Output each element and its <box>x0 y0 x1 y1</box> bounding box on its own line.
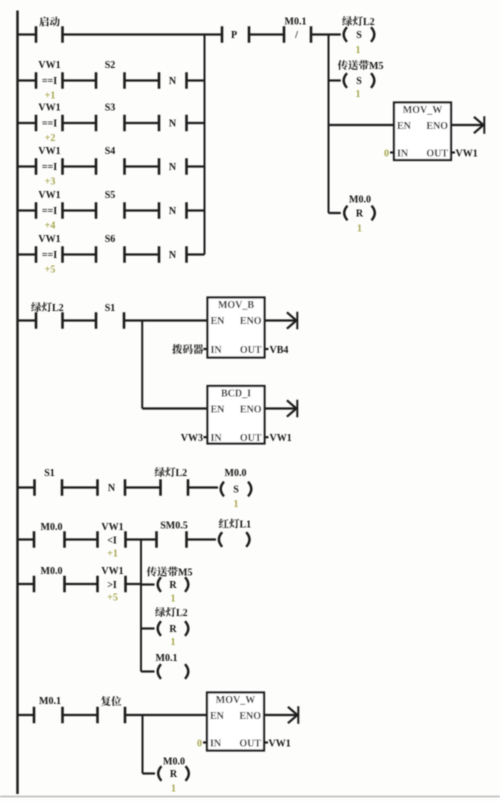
svg-text:IN: IN <box>211 345 223 356</box>
svg-text:OUT: OUT <box>426 149 448 160</box>
operand +3 <box>45 177 56 188</box>
svg-text:VW1: VW1 <box>38 60 60 71</box>
coil M0.0 set network3 <box>221 468 252 496</box>
svg-text:N: N <box>108 483 116 494</box>
operand 1 under reset coil <box>357 224 362 235</box>
wire branch bus network4 <box>140 540 142 672</box>
contact VW1 ==I compare +3 <box>36 146 63 175</box>
operand +4 <box>45 221 56 232</box>
svg-text:N: N <box>169 206 177 217</box>
svg-text:R: R <box>356 209 364 220</box>
svg-text:VW1: VW1 <box>456 148 478 159</box>
wire stub to M0.0 reset coil <box>329 212 341 214</box>
svg-text:EN: EN <box>397 121 412 132</box>
contact S6 <box>96 234 125 263</box>
contact N negative edge S3 rung <box>159 115 187 132</box>
svg-text:IN: IN <box>397 149 409 160</box>
svg-text:+5: +5 <box>45 265 56 276</box>
svg-text:N: N <box>169 119 177 130</box>
coil M0.1 output <box>156 653 189 679</box>
svg-text:S: S <box>356 30 362 41</box>
svg-text:<I: <I <box>107 535 117 546</box>
svg-text:+4: +4 <box>45 221 56 232</box>
svg-text:L2: L2 <box>363 17 375 28</box>
svg-text:VW1: VW1 <box>38 234 60 245</box>
operand 1 under conveyor coil <box>356 89 361 100</box>
svg-text:N: N <box>169 162 177 173</box>
wire network4 rungB <box>18 583 142 585</box>
svg-text:==I: ==I <box>42 119 57 130</box>
svg-text:MOV_W: MOV_W <box>403 105 442 116</box>
wire stub M0.1 coil <box>141 670 155 672</box>
wire ENO output MOV_B <box>265 319 296 321</box>
wire compare rung S3 <box>18 122 205 124</box>
operand 0 at IN network5 <box>197 738 202 749</box>
svg-text:==I: ==I <box>42 162 57 173</box>
svg-text:VW1: VW1 <box>38 103 60 114</box>
operand +5 <box>45 265 56 276</box>
operand 1 under set coil <box>356 45 361 56</box>
svg-text:L1: L1 <box>240 520 252 531</box>
svg-text:+1: +1 <box>45 91 56 102</box>
svg-text:L2: L2 <box>176 468 188 479</box>
svg-text:M0.0: M0.0 <box>349 195 371 206</box>
svg-text:OUT: OUT <box>240 345 262 356</box>
svg-text:M0.1: M0.1 <box>285 17 307 28</box>
contact SM0.5 <box>157 521 188 548</box>
operand VB4 at OUT <box>270 345 289 356</box>
continuation arrow network1 <box>474 116 484 134</box>
contact VW1 ==I compare +4 <box>36 190 63 219</box>
svg-text:VW1: VW1 <box>269 738 291 749</box>
contact P positive edge <box>222 26 249 43</box>
contact M0.1 normally closed <box>284 17 311 43</box>
svg-text:S1: S1 <box>44 468 55 479</box>
svg-text:ENO: ENO <box>239 711 261 722</box>
svg-text:S5: S5 <box>105 190 116 201</box>
function box MOV_W network1 <box>390 103 455 161</box>
wire compare rung S4 <box>18 165 205 167</box>
wire stub M0.0 reset network5 <box>143 772 156 774</box>
operand 0 at IN <box>384 148 389 159</box>
svg-text:VW1: VW1 <box>38 146 60 157</box>
svg-text:M5: M5 <box>178 568 192 579</box>
operand 1 greenlamp reset <box>171 637 176 648</box>
wire ENO output BCD_I <box>265 407 296 409</box>
svg-text:+1: +1 <box>107 549 118 560</box>
contact N network3 <box>98 479 126 496</box>
svg-text:SM0.5: SM0.5 <box>160 521 188 532</box>
wire network3 rung <box>18 486 219 488</box>
contact N negative edge S2 rung <box>159 72 187 89</box>
svg-text:L2: L2 <box>52 303 64 314</box>
operand 1 network3 <box>234 499 239 510</box>
function box MOV_B <box>204 298 269 358</box>
coil M0.0 reset R <box>344 195 375 221</box>
coil 红灯L1 network4 <box>219 519 251 547</box>
svg-text:M0.0: M0.0 <box>41 566 63 577</box>
svg-text:ENO: ENO <box>240 405 262 416</box>
contact S1 network2 <box>96 303 124 329</box>
continuation arrow MOV_B <box>287 312 297 330</box>
svg-text:S1: S1 <box>105 303 116 314</box>
wire compare rung S5 <box>18 209 205 211</box>
wire network2 rung <box>18 319 208 321</box>
contact VW1 greater-than <box>98 566 126 592</box>
wire stub greenlamp reset <box>141 627 155 629</box>
wire branch to BCD_I <box>142 321 207 409</box>
operand 拨码器 at IN <box>172 344 203 354</box>
svg-text:1: 1 <box>171 784 176 795</box>
wire compare rung S6 <box>18 253 205 255</box>
svg-text:IN: IN <box>210 739 222 750</box>
svg-text:EN: EN <box>211 405 226 416</box>
branch bus network1 outputs <box>328 35 330 214</box>
node collector bus junction <box>204 35 206 255</box>
svg-text:BCD_I: BCD_I <box>221 389 251 400</box>
svg-text:VW1: VW1 <box>101 522 123 533</box>
wire ENO output MOV_W <box>451 124 483 126</box>
svg-text:S3: S3 <box>105 103 116 114</box>
wire network5 rung <box>18 714 208 716</box>
contact M0.0 rungA <box>34 522 65 548</box>
contact VW1 ==I compare +2 <box>36 103 63 132</box>
contact S2 <box>96 60 125 89</box>
svg-text:1: 1 <box>171 594 176 605</box>
wire stub conveyor reset <box>141 583 155 585</box>
svg-text:L2: L2 <box>176 608 188 619</box>
svg-text:EN: EN <box>211 316 226 327</box>
contact 绿灯L2 network3 <box>155 467 188 496</box>
svg-text:S: S <box>356 76 362 87</box>
svg-text:0: 0 <box>197 738 202 749</box>
contact VW1 less-than <box>98 522 126 548</box>
contact N negative edge S5 rung <box>159 202 187 219</box>
contact 绿灯L2 network2 <box>31 302 63 329</box>
operand +5 rungB <box>107 593 118 604</box>
svg-text:/: / <box>294 30 298 41</box>
wire stub to conveyor coil <box>329 79 341 81</box>
contact S3 <box>96 103 125 132</box>
svg-text:ENO: ENO <box>426 121 448 132</box>
wire compare rung S2 <box>18 79 205 81</box>
continuation arrow network5 <box>288 706 298 724</box>
coil M0.0 reset network5 <box>158 757 189 781</box>
contact VW1 ==I compare +5 <box>36 234 63 263</box>
svg-text:EN: EN <box>210 711 225 722</box>
continuation arrow BCD_I <box>287 400 297 418</box>
svg-text:S: S <box>233 485 239 496</box>
coil 绿灯L2 reset R <box>155 607 188 636</box>
svg-text:VW1: VW1 <box>270 433 292 444</box>
svg-text:1: 1 <box>357 224 362 235</box>
svg-text:M0.0: M0.0 <box>163 757 185 768</box>
svg-text:M5: M5 <box>369 61 383 72</box>
svg-text:M0.1: M0.1 <box>156 653 178 664</box>
svg-text:OUT: OUT <box>240 433 262 444</box>
svg-text:==I: ==I <box>42 206 57 217</box>
operand 1 conveyor reset <box>171 594 176 605</box>
scan edge line <box>0 796 500 798</box>
svg-text:==I: ==I <box>42 250 57 261</box>
contact S5 <box>96 190 125 219</box>
svg-text:M0.0: M0.0 <box>225 468 247 479</box>
svg-text:MOV_W: MOV_W <box>216 695 255 706</box>
svg-text:VW1: VW1 <box>101 566 123 577</box>
contact M0.0 rungB <box>34 566 65 592</box>
svg-text:N: N <box>169 250 177 261</box>
svg-text:N: N <box>169 76 177 87</box>
svg-text:P: P <box>231 30 237 41</box>
coil 传送带M5 reset R <box>147 567 193 592</box>
contact N negative edge S6 rung <box>159 246 187 263</box>
coil 绿灯L2 set S <box>342 16 374 42</box>
left power rail <box>16 11 19 795</box>
wire network4 rungA <box>18 538 217 540</box>
svg-text:S6: S6 <box>105 234 116 245</box>
svg-text:+2: +2 <box>45 133 56 144</box>
svg-text:S4: S4 <box>105 146 116 157</box>
svg-text:M0.1: M0.1 <box>39 696 61 707</box>
svg-text:==I: ==I <box>42 76 57 87</box>
function box BCD_I <box>204 386 269 444</box>
svg-text:R: R <box>170 769 178 780</box>
svg-text:M0.0: M0.0 <box>41 522 63 533</box>
svg-text:1: 1 <box>356 89 361 100</box>
contact S4 <box>96 146 125 175</box>
contact N negative edge S4 rung <box>159 158 187 175</box>
svg-text:VW1: VW1 <box>38 190 60 201</box>
svg-text:>I: >I <box>107 580 117 591</box>
svg-text:+5: +5 <box>107 593 118 604</box>
svg-text:1: 1 <box>171 637 176 648</box>
svg-text:MOV_B: MOV_B <box>218 300 254 311</box>
svg-text:VB4: VB4 <box>270 345 289 356</box>
operand VW3 at IN <box>181 433 203 444</box>
contact S1 network3 <box>35 468 63 496</box>
wire network1 main rung <box>18 33 341 35</box>
svg-text:R: R <box>169 580 177 591</box>
svg-text:1: 1 <box>234 499 239 510</box>
function box MOV_W network5 <box>203 693 268 751</box>
operand 1 network5 <box>171 784 176 795</box>
svg-text:VW3: VW3 <box>181 433 203 444</box>
svg-text:0: 0 <box>384 148 389 159</box>
operand VW1 at OUT BCD_I <box>270 433 292 444</box>
svg-text:1: 1 <box>356 45 361 56</box>
svg-text:IN: IN <box>211 433 223 444</box>
wire ENO output network5 <box>264 714 297 716</box>
operand VW1 at OUT <box>456 148 478 159</box>
svg-text:+3: +3 <box>45 177 56 188</box>
operand +1 rungA <box>107 549 118 560</box>
svg-text:S2: S2 <box>105 60 116 71</box>
wire EN input of MOV_W <box>329 124 395 126</box>
contact 启动 start button <box>36 16 63 42</box>
contact 复位 reset button <box>98 696 126 723</box>
operand VW1 at OUT network5 <box>269 738 291 749</box>
operand +1 <box>45 91 56 102</box>
svg-text:ENO: ENO <box>240 316 262 327</box>
svg-text:OUT: OUT <box>239 739 261 750</box>
operand +2 <box>45 133 56 144</box>
contact VW1 ==I compare +1 <box>36 60 63 89</box>
wire branch to M0.0 reset <box>142 715 144 774</box>
svg-text:R: R <box>169 624 177 635</box>
contact M0.1 network5 <box>34 696 63 723</box>
coil 传送带M5 set S <box>338 60 384 88</box>
